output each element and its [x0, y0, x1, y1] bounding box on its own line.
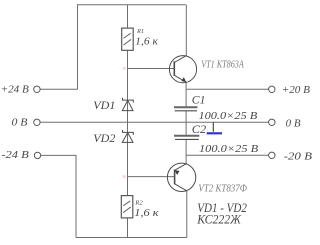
svg-text:0 В: 0 В: [286, 119, 301, 130]
svg-text:0 В: 0 В: [12, 118, 28, 129]
svg-text:1,6 к: 1,6 к: [135, 37, 158, 48]
svg-text:+24 В: +24 В: [1, 84, 29, 95]
svg-text:VD1: VD1: [93, 100, 115, 112]
svg-text:КС222Ж: КС222Ж: [196, 213, 241, 227]
svg-text:R1: R1: [136, 29, 144, 35]
svg-text:C1: C1: [192, 94, 206, 106]
svg-text:R2: R2: [134, 201, 143, 207]
svg-text:C2: C2: [192, 124, 207, 136]
svg-text:-20 В: -20 В: [284, 151, 312, 162]
svg-text:VT2 КТ837Ф: VT2 КТ837Ф: [198, 184, 247, 195]
svg-text:100.0×25 В: 100.0×25 В: [199, 110, 258, 122]
svg-text:VT1 КТ863А: VT1 КТ863А: [201, 59, 244, 70]
svg-text:+20 В: +20 В: [282, 85, 310, 96]
svg-text:100.0×25 В: 100.0×25 В: [199, 143, 258, 155]
svg-text:-24 В: -24 В: [1, 150, 28, 161]
svg-text:VD2: VD2: [93, 133, 115, 145]
svg-text:1,6 к: 1,6 к: [134, 208, 159, 219]
